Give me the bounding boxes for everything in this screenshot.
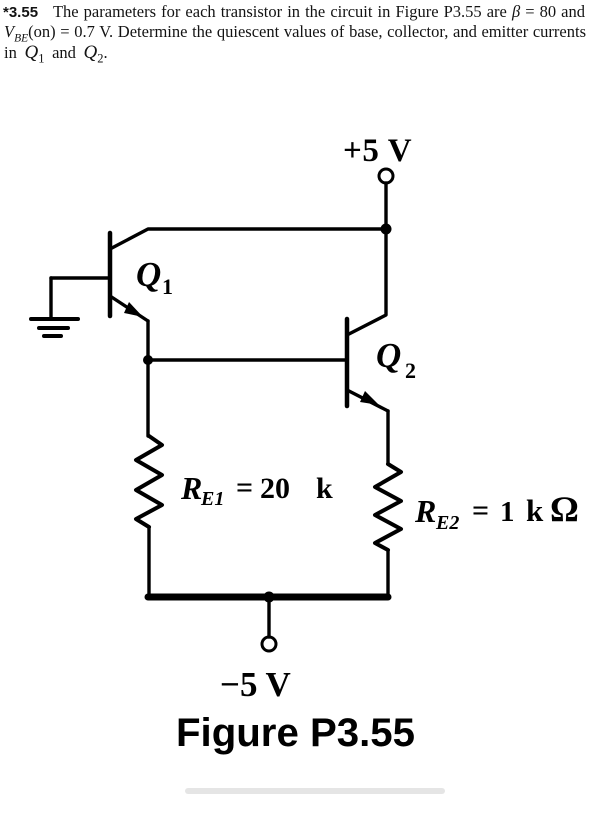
svg-text:=: =: [472, 494, 489, 527]
svg-text:2: 2: [405, 358, 416, 383]
svg-text:+5 V: +5 V: [343, 133, 412, 169]
svg-text:20: 20: [260, 472, 290, 505]
wire: bottom rail: [148, 594, 388, 601]
svg-text:R: R: [180, 470, 202, 506]
label Q1: [136, 255, 173, 299]
wire: RE1 to bottom rail: [147, 527, 150, 596]
+5 V terminal: [379, 169, 393, 183]
label RE1 = 20 k: [180, 470, 333, 510]
node: top rail junction: [381, 224, 392, 235]
wire: RE2 to bottom rail: [386, 550, 389, 597]
svg-text:k: k: [316, 472, 333, 505]
svg-text:R: R: [414, 493, 436, 529]
problem statement line 1: [3, 2, 585, 22]
-5 V label: [220, 665, 291, 704]
svg-text:=: =: [236, 471, 253, 504]
-5 V terminal: [262, 637, 276, 651]
scan smudge under caption: [185, 788, 445, 794]
problem statement line 3: [4, 42, 108, 66]
svg-text:−5 V: −5 V: [220, 665, 291, 704]
transistor Q1: [51, 233, 148, 321]
wire: Q1 base to ground: [49, 278, 52, 317]
+5 V supply label: [343, 133, 412, 169]
wire: junction down to RE1: [148, 360, 149, 436]
label RE2 = 1 kOhm: [414, 489, 579, 534]
wire: bottom rail to -5V terminal: [267, 600, 270, 637]
svg-text:Q: Q: [136, 255, 161, 294]
resistor RE2: [375, 464, 401, 550]
svg-text:1: 1: [500, 496, 515, 528]
svg-text:Figure P3.55: Figure P3.55: [176, 710, 415, 755]
svg-text:1: 1: [162, 274, 173, 299]
problem statement line 2: [4, 22, 586, 44]
svg-text:k: k: [526, 493, 544, 528]
ground: [31, 319, 78, 336]
wire: top rail to Q1 collector: [110, 229, 386, 249]
svg-text:Q: Q: [376, 336, 401, 375]
node: bottom rail junction: [264, 592, 275, 603]
svg-text:E1: E1: [200, 488, 224, 510]
resistor RE1: [136, 436, 162, 527]
transistor Q2: [347, 229, 388, 411]
wire: Q2 emitter down to RE2: [386, 411, 389, 464]
label Q2: [376, 336, 416, 383]
wire: junction to Q2 base: [148, 358, 347, 361]
svg-text:Ω: Ω: [550, 489, 579, 529]
svg-text:E2: E2: [435, 512, 459, 534]
wire: Q1 emitter down to node: [146, 321, 149, 360]
figure caption: [176, 710, 415, 755]
node: Q1 emitter / Q2 base junction: [143, 355, 153, 365]
wire: +5V terminal to top rail: [384, 183, 387, 229]
